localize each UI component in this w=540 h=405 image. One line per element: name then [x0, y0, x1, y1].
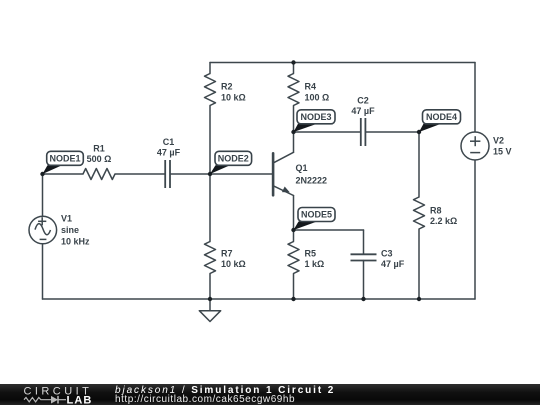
node NODE3	[294, 110, 336, 132]
junction top rail R4	[291, 60, 295, 64]
svg-text:NODE1: NODE1	[49, 154, 80, 164]
svg-text:2.2 kΩ: 2.2 kΩ	[430, 216, 457, 226]
wire R5 bottom lead	[293, 274, 295, 300]
wire V1 bottom to rail	[42, 244, 44, 299]
node NODE4	[419, 110, 461, 132]
wire R5 top lead	[293, 230, 295, 242]
node NODE5	[294, 208, 336, 231]
svg-text:47 µF: 47 µF	[351, 106, 375, 116]
svg-text:C3: C3	[381, 249, 393, 259]
CircuitLab logo	[0, 384, 110, 404]
svg-text:NODE3: NODE3	[300, 112, 331, 122]
wire NODE5 to C3	[294, 229, 364, 231]
svg-text:V1: V1	[61, 214, 72, 224]
junction node1	[40, 172, 44, 176]
wire node1 to R1	[43, 173, 84, 175]
svg-text:10 kΩ: 10 kΩ	[221, 93, 246, 103]
junction node4	[417, 130, 421, 134]
svg-text:47 µF: 47 µF	[381, 259, 405, 269]
node NODE1	[43, 151, 84, 174]
wire R7 bottom lead	[209, 274, 211, 300]
wire V2 top stub	[474, 63, 476, 133]
svg-text:1 kΩ: 1 kΩ	[305, 259, 325, 269]
wire R7 top lead	[209, 174, 211, 242]
svg-text:NODE4: NODE4	[426, 112, 457, 122]
junction rail R8	[417, 297, 421, 301]
footer text line 1	[115, 386, 335, 396]
junction rail R5	[291, 297, 295, 301]
svg-text:R2: R2	[221, 82, 233, 92]
svg-text:R5: R5	[305, 249, 317, 259]
wire C1 to Q1 base	[171, 173, 274, 175]
wire top rail	[210, 62, 475, 64]
wire bottom rail	[43, 298, 476, 300]
resistor R7	[205, 242, 216, 274]
wire R2 top lead	[209, 63, 211, 74]
wire emitter to NODE5	[293, 196, 295, 231]
svg-text:R7: R7	[221, 249, 233, 259]
junction node2	[208, 172, 212, 176]
junction rail C3	[361, 297, 365, 301]
svg-text:LAB: LAB	[67, 394, 93, 404]
wire V2 bottom stub	[474, 160, 476, 299]
svg-text:NODE5: NODE5	[301, 210, 332, 220]
wire R2 bottom lead to NODE2	[209, 106, 211, 175]
resistor R2	[205, 74, 216, 106]
wire NODE4 to R8	[418, 132, 420, 197]
resistor R4	[288, 74, 299, 106]
svg-text:C1: C1	[163, 137, 175, 147]
svg-text:47 µF: 47 µF	[157, 148, 181, 158]
svg-text:100 Ω: 100 Ω	[305, 93, 330, 103]
footer bar	[0, 384, 540, 405]
svg-text:V2: V2	[493, 136, 504, 146]
svg-text:500 Ω: 500 Ω	[87, 154, 112, 164]
transistor Q1	[273, 132, 293, 196]
svg-text:R4: R4	[305, 82, 317, 92]
svg-text:2N2222: 2N2222	[296, 176, 328, 186]
wire C2 to NODE4	[366, 131, 419, 133]
junction node5	[291, 228, 295, 232]
resistor R1	[83, 169, 115, 180]
capacitor C1	[165, 160, 170, 188]
capacitor C3	[351, 254, 377, 260]
footer text line 2	[115, 395, 295, 405]
source V2	[461, 132, 489, 160]
capacitor C2	[361, 118, 366, 146]
wire R4 bottom lead to NODE3	[293, 106, 295, 133]
svg-text:10 kΩ: 10 kΩ	[221, 259, 246, 269]
resistor R5	[288, 242, 299, 274]
ground	[199, 299, 220, 322]
node NODE2	[210, 151, 252, 174]
svg-text:R8: R8	[430, 206, 442, 216]
svg-text:C2: C2	[357, 96, 369, 106]
wire R8 to bottom rail	[418, 229, 420, 299]
Q1 emitter arrow	[282, 187, 290, 193]
svg-text:15 V: 15 V	[493, 147, 512, 157]
wire NODE3 to C2	[294, 131, 361, 133]
svg-text:Q1: Q1	[296, 163, 308, 173]
svg-text:NODE2: NODE2	[218, 154, 249, 164]
wire V1 to R1 vertical	[42, 174, 44, 217]
svg-text:10 kHz: 10 kHz	[61, 237, 90, 247]
source V1	[29, 216, 57, 244]
junction node3	[291, 130, 295, 134]
wire R4 top lead	[293, 63, 295, 74]
resistor R8	[414, 197, 425, 229]
svg-text:R1: R1	[93, 144, 105, 154]
wire R1 to C1	[115, 173, 165, 175]
wire C3 top lead	[363, 230, 365, 254]
junction rail R7	[208, 297, 212, 301]
svg-text:sine: sine	[61, 225, 79, 235]
wire C3 bottom lead	[363, 261, 365, 300]
